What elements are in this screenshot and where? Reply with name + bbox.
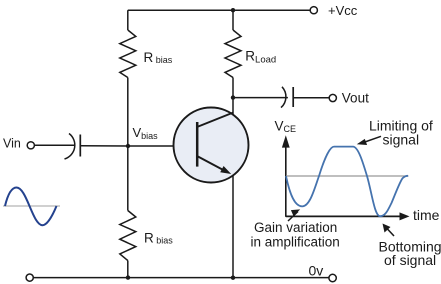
node: emitter/0v junction [231, 276, 235, 280]
node: V_bias junction [126, 144, 130, 148]
wire: base lead [128, 145, 196, 147]
svg-text:in amplification: in amplification [251, 234, 340, 249]
graph V axis [285, 144, 287, 217]
transistor Q1 base bar [196, 122, 199, 167]
svg-text:R bias: R bias [144, 231, 173, 246]
arrow: limiting of signal pointer [362, 136, 381, 143]
graph V_CE waveform (blue) [286, 147, 408, 217]
terminal +Vcc [310, 7, 317, 14]
transistor Q1 body [174, 108, 249, 183]
input sine wave (blue) [5, 188, 57, 226]
svg-text:Vbias: Vbias [133, 125, 159, 141]
graph V axis arrowhead [282, 135, 290, 147]
input sine baseline (gray) [3, 205, 60, 207]
svg-text:Gain variation: Gain variation [254, 220, 337, 235]
wire: left branch top [127, 10, 129, 30]
transistor Q1 collector lead [197, 113, 233, 127]
svg-text:+Vcc: +Vcc [328, 3, 358, 18]
wire: 0v bottom rail [33, 277, 328, 279]
svg-text:Vout: Vout [342, 90, 369, 105]
wire: to Vout terminal [293, 97, 329, 99]
wire: Vin to capacitor [35, 144, 75, 146]
resistor R_Load [225, 30, 241, 78]
svg-text:signal: signal [383, 132, 420, 148]
graph time axis [286, 215, 403, 217]
svg-text:VCE: VCE [275, 119, 297, 135]
wire: left branch middle [127, 78, 129, 211]
terminal Vout [329, 94, 336, 101]
graph center line (gray) [286, 175, 409, 177]
wire: Vout tap [233, 97, 288, 99]
graph time axis arrowhead [400, 212, 410, 220]
svg-text:Vin: Vin [3, 136, 21, 150]
svg-text:time: time [413, 207, 440, 223]
transistor Q1 emitter lead [197, 156, 224, 170]
wire: emitter branch [232, 176, 234, 278]
capacitor C_out curved plate [281, 87, 286, 108]
svg-text:R bias: R bias [144, 50, 173, 65]
svg-text:0v: 0v [309, 263, 324, 279]
node: collector/Vout junction [231, 95, 235, 99]
capacitor C_in curved plate [65, 134, 75, 160]
svg-text:RLoad: RLoad [245, 48, 276, 65]
wire: left branch bottom [127, 261, 129, 278]
resistor R_bias (upper) [120, 30, 136, 78]
capacitor C_out straight plate [292, 87, 294, 107]
resistor R_bias (lower) [120, 211, 136, 261]
arrow: gain variation pointer [288, 212, 298, 222]
transistor Q1 emitter arrowhead [220, 166, 231, 174]
wire: collector branch [232, 78, 234, 115]
wire: middle branch top [232, 10, 234, 30]
terminal 0v left [26, 274, 33, 281]
terminal Vin [27, 142, 34, 149]
svg-text:of signal: of signal [384, 252, 436, 268]
node: left branch/0v junction [126, 275, 130, 279]
arrow: bottoming of signal pointer [387, 228, 395, 236]
wire: capacitor to V_bias node [80, 145, 128, 147]
node: top rail junction [231, 8, 235, 12]
terminal 0v right [329, 274, 336, 281]
wire: +Vcc top rail [128, 9, 310, 11]
capacitor C_in straight plate [79, 135, 81, 157]
